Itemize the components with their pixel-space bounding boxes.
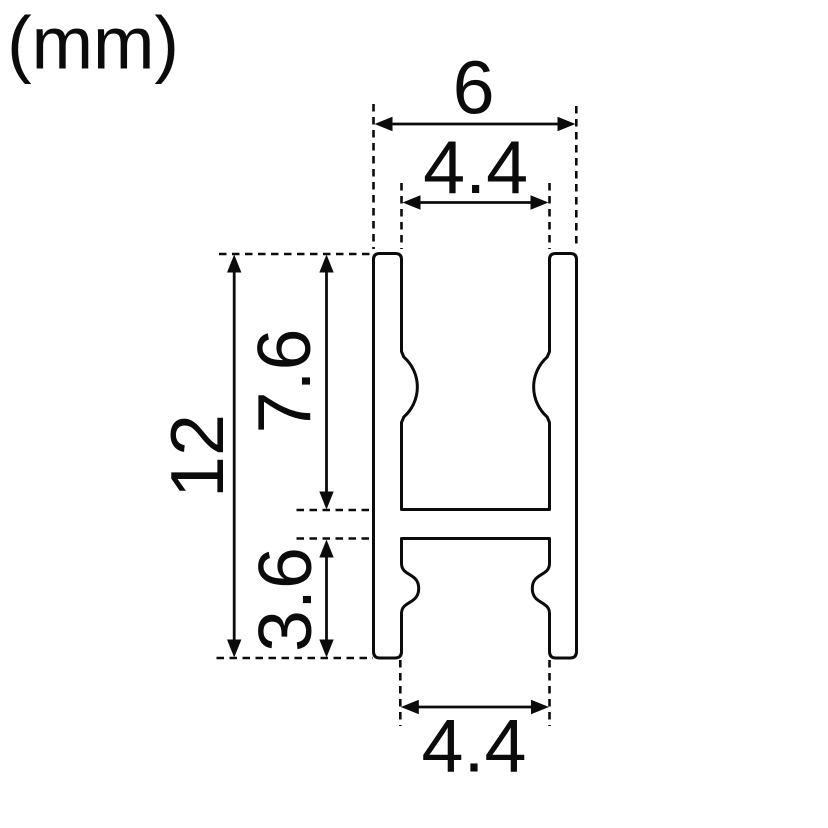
profile outline (H-channel cross-section) — [374, 254, 577, 659]
extension line dashed vertical right-inner (for top 4.4) — [548, 183, 551, 249]
extension line dashed vertical right-inner (for bottom 4.4) — [548, 660, 551, 726]
extension line dashed horizontal at crossbar top (for 7.6) — [297, 509, 373, 512]
svg-text:7.6: 7.6 — [242, 329, 326, 434]
dimension arrow 4.4 bottom — [401, 700, 549, 714]
svg-text:3.6: 3.6 — [243, 547, 327, 652]
extension line dashed horizontal at crossbar bottom (for 3.6) — [297, 537, 373, 540]
dimension arrow 7.6 — [319, 255, 333, 510]
dimension arrow 4.4 top — [403, 195, 549, 209]
extension line dashed horizontal at profile bottom (for 12 / 3.6) — [217, 657, 374, 660]
dimension arrow 12 — [227, 255, 241, 658]
extension line dashed horizontal at profile top (for 12 / 7.6) — [219, 253, 372, 256]
extension line dashed vertical left-inner (for bottom 4.4) — [399, 660, 402, 726]
extension line dashed vertical right-outer (for 6) — [575, 106, 578, 249]
svg-text:4.4: 4.4 — [422, 704, 527, 788]
extension line dashed vertical left-inner (for top 4.4) — [400, 183, 403, 249]
svg-text:6: 6 — [453, 46, 495, 130]
svg-text:12: 12 — [155, 414, 239, 498]
svg-text:4.4: 4.4 — [423, 125, 528, 209]
dimension arrow 3.6 — [319, 540, 333, 658]
svg-text:(mm): (mm) — [7, 2, 179, 85]
extension line dashed vertical left-outer (for 6) — [372, 104, 375, 249]
dimension arrow 6 — [375, 117, 576, 131]
